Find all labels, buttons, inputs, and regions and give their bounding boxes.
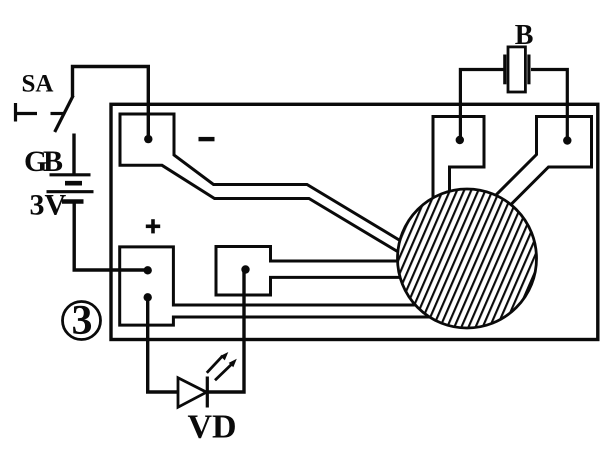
LED light arrow 1: [207, 352, 229, 373]
svg-text:SA: SA: [22, 71, 54, 98]
junction dot P1: [144, 135, 152, 143]
wire P2 lower dot down to LED anode: [148, 297, 178, 392]
wire B right lead to pad P5: [531, 70, 567, 139]
junction dot P2 upper: [144, 266, 152, 274]
switch SA right fixed contact: [51, 112, 65, 115]
piezo disc (hatched): [398, 189, 537, 328]
sounder B left electrode bar: [503, 55, 506, 85]
junction dot P3: [241, 265, 249, 273]
battery GB plate 3 (long): [47, 190, 94, 193]
pad P1 (battery minus, top-left) with bent trace to piezo disc: [120, 114, 400, 252]
junction dot P4: [456, 136, 464, 144]
sounder B right electrode bar: [527, 55, 530, 85]
LED VD cathode bar: [206, 377, 209, 408]
battery GB plate 1 (long): [50, 173, 91, 176]
LED light arrow 2: [215, 359, 237, 381]
plus sign: [146, 219, 160, 233]
svg-text:GB: GB: [24, 145, 63, 178]
pad P4 (top, left of B) with stub trace to piezo disc: [433, 117, 484, 198]
wire switch top to pad P1: [73, 67, 149, 138]
battery GB plate 4 (short thick): [62, 199, 84, 204]
wire LED cathode up to P3 dot: [206, 270, 244, 393]
svg-text:3V: 3V: [30, 189, 67, 222]
svg-text:VD: VD: [188, 409, 237, 446]
battery GB plate 2 (short thick): [65, 181, 82, 186]
LED VD triangle: [178, 378, 207, 407]
minus sign: [199, 137, 215, 141]
junction dot P5: [563, 136, 571, 144]
wire switch bottom to battery: [72, 134, 75, 176]
figure number circled 3: [63, 298, 101, 344]
wire battery to pad P2: [74, 202, 146, 271]
junction dot P2 lower: [144, 293, 152, 301]
sounder B body: [508, 47, 525, 92]
circuit board outline: [111, 104, 598, 339]
switch SA left terminal: [14, 103, 37, 122]
pad P5 (top-right) with diagonal trace to piezo disc: [496, 117, 592, 205]
switch SA lever: [55, 96, 73, 133]
wire B left lead to pad P4: [460, 70, 503, 139]
pad P2 (battery plus, lower-left) with bottom trace to piezo disc: [120, 247, 430, 325]
svg-text:3: 3: [72, 298, 93, 344]
pad P3 (LED cathode pad) with trace to piezo disc: [216, 247, 400, 296]
